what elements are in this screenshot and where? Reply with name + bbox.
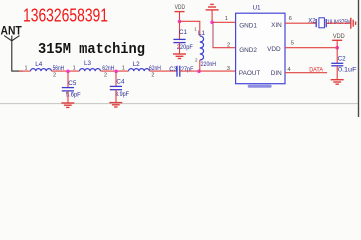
crystal X2 (308, 18, 351, 28)
node VDD left (178, 20, 182, 24)
node B (114, 70, 118, 74)
ground under C2 (331, 66, 344, 84)
IC U1 box (236, 13, 285, 84)
svg-text:C2: C2 (338, 55, 347, 62)
node C (197, 70, 201, 74)
svg-text:GND2: GND2 (239, 47, 257, 54)
capacitor C1 (173, 21, 193, 50)
wire antenna to L4 (19, 70, 31, 72)
ground under C4 (109, 90, 122, 107)
inductor L3 (80, 60, 115, 79)
ground under C5 (61, 91, 74, 108)
svg-text:2: 2 (104, 72, 107, 78)
capacitor C3 (169, 66, 193, 77)
separator line (0, 103, 358, 105)
svg-text:L3: L3 (84, 60, 92, 67)
wire C3 to node C (180, 70, 199, 72)
svg-text:3.9pF: 3.9pF (115, 92, 129, 98)
svg-text:1: 1 (225, 16, 228, 22)
capacitor C5 (62, 71, 81, 98)
wire L4 to node A (52, 70, 80, 72)
svg-text:2: 2 (195, 58, 198, 63)
svg-text:DIN: DIN (271, 70, 282, 77)
svg-text:DATA: DATA (309, 66, 323, 73)
inverted ground top (206, 4, 219, 22)
svg-text:VDD: VDD (267, 46, 281, 53)
VDD power port left (175, 4, 186, 22)
svg-text:GND1: GND1 (239, 22, 257, 29)
svg-text:L2: L2 (133, 61, 141, 68)
wire L3 to node B (101, 70, 129, 72)
svg-text:C5: C5 (68, 80, 77, 87)
wire XIN to X2 (285, 22, 316, 24)
svg-text:1: 1 (122, 66, 125, 72)
node D (210, 21, 214, 25)
wire node D to GND2 (212, 24, 214, 48)
capacitor C2 (331, 48, 357, 74)
wire node D to GND1 (212, 21, 236, 23)
shadow artifact (248, 85, 272, 88)
wire DIN DATA stub (285, 72, 327, 74)
window edge line (358, 0, 360, 117)
svg-text:C4: C4 (116, 79, 125, 86)
VDD power port right (332, 33, 345, 48)
svg-text:VDD: VDD (333, 33, 345, 40)
svg-text:X2: X2 (308, 19, 316, 25)
svg-text:1: 1 (25, 66, 28, 72)
svg-text:VDD: VDD (175, 4, 186, 11)
svg-text:2: 2 (151, 73, 154, 79)
capacitor C4 (110, 71, 130, 98)
svg-text:L1: L1 (198, 30, 206, 37)
svg-text:L4: L4 (35, 61, 43, 68)
wire L2 to C3 (150, 70, 178, 72)
node E (335, 46, 339, 50)
antenna ANT (1, 26, 24, 71)
ground right rotated (351, 18, 356, 29)
svg-text:0.1uF: 0.1uF (338, 68, 357, 74)
svg-text:3: 3 (227, 66, 230, 72)
svg-text:C1: C1 (179, 29, 188, 36)
svg-text:PAOUT: PAOUT (239, 70, 261, 77)
svg-text:1: 1 (194, 27, 197, 32)
svg-text:2: 2 (227, 42, 230, 48)
svg-text:2: 2 (53, 73, 56, 79)
wire X2 to ground (326, 22, 350, 24)
svg-text:U1: U1 (253, 5, 261, 11)
svg-text:315M matching: 315M matching (38, 42, 145, 58)
inductor L4 (31, 61, 65, 79)
wire VDD pin5 (285, 47, 337, 49)
wire node C to PAOUT (199, 70, 236, 72)
svg-text:13632658391: 13632658391 (23, 5, 108, 26)
svg-text:6: 6 (289, 16, 292, 22)
svg-text:27pF: 27pF (181, 67, 194, 73)
inductor L1 (194, 27, 216, 72)
svg-text:C3: C3 (169, 67, 177, 73)
svg-text:5: 5 (291, 41, 294, 47)
ground under C1 (173, 43, 186, 59)
inductor L2 (129, 61, 161, 79)
svg-text:220nH: 220nH (201, 62, 217, 68)
svg-text:1: 1 (73, 66, 76, 72)
node A (66, 70, 70, 74)
svg-text:XIN: XIN (271, 22, 282, 29)
wire VDD to L1 (180, 21, 200, 36)
